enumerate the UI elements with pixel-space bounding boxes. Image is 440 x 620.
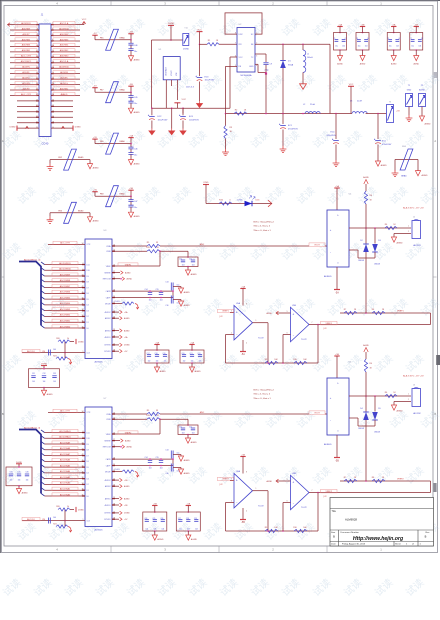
- svg-text:-5B: -5B: [335, 459, 339, 462]
- svg-text:2: 2: [408, 399, 409, 401]
- svg-text:D7: D7: [87, 455, 89, 457]
- amp U4: [334, 187, 339, 189]
- svg-text:1N4148: 1N4148: [374, 431, 380, 433]
- svg-text:AGND: AGND: [157, 538, 164, 541]
- VINA wire with resistor R5: [112, 413, 147, 415]
- svg-text:13: 13: [36, 56, 38, 58]
- ferrite bead FB6 group: [92, 138, 97, 140]
- clamp bottom rail: [365, 252, 367, 258]
- svg-text:AVDD1: AVDD1: [105, 336, 111, 339]
- wire SE to rail: [329, 44, 331, 113]
- svg-text:+5A: +5A: [155, 341, 159, 344]
- EC3 capacitor: [199, 44, 201, 76]
- svg-text:A: A: [434, 139, 436, 143]
- resistor R9: [265, 361, 278, 364]
- svg-text:ADCDWB5: ADCDWB5: [60, 296, 71, 299]
- svg-text:ADCDWA7: ADCDWA7: [60, 453, 71, 456]
- svg-text:1: 1: [83, 437, 84, 439]
- CC40 pin row 18: [17, 116, 39, 118]
- svg-text:AGND: AGND: [47, 393, 54, 396]
- VREF wire: [159, 251, 161, 266]
- svg-text:B(.A.X.S.F.L: -5V~+5V: B(.A.X.S.F.L: -5V~+5V: [403, 375, 424, 378]
- svg-text:18: 18: [52, 67, 54, 69]
- svg-text:7: 7: [235, 43, 236, 45]
- bus entry + wire ADCDWA5: [41, 465, 45, 468]
- svg-text:5Vin = 5, Vout = 5: 5Vin = 5, Vout = 5: [254, 393, 271, 396]
- feedback divider row R7 R8: [340, 480, 431, 482]
- svg-text:42: 42: [82, 286, 84, 288]
- svg-text:37: 37: [82, 483, 84, 485]
- svg-text:5Vin = -5, Vout = 1: 5Vin = -5, Vout = 1: [254, 229, 272, 232]
- ground: [149, 128, 155, 135]
- svg-text:CM: CM: [42, 351, 45, 353]
- svg-text:ADDRB10: ADDRB10: [59, 66, 69, 69]
- svg-text:104: 104: [182, 264, 185, 266]
- svg-text:ADCDWA4: ADCDWA4: [60, 470, 71, 473]
- svg-text:D11: D11: [87, 264, 90, 266]
- svg-text:C7: C7: [410, 38, 412, 40]
- svg-text:-5B: -5B: [129, 84, 133, 86]
- svg-text:VIN: VIN: [176, 72, 178, 76]
- svg-text:DGND: DGND: [78, 342, 84, 344]
- date row: [338, 541, 340, 546]
- svg-text:C1: C1: [333, 38, 335, 40]
- connector pin2 to AGND: [394, 233, 411, 235]
- svg-text:D9: D9: [87, 444, 89, 446]
- svg-text:C26: C26: [160, 518, 163, 520]
- svg-text:ADDRB1: ADDRB1: [22, 49, 31, 52]
- svg-text:SENSE: SENSE: [104, 272, 111, 274]
- AVDD1 stub: [112, 504, 119, 506]
- svg-text:AGND: AGND: [363, 344, 369, 347]
- svg-text:VREF2: VREF2: [326, 491, 333, 493]
- svg-text:BEAD: BEAD: [401, 174, 407, 177]
- svg-text:C20: C20: [182, 353, 185, 355]
- svg-text:C5: C5: [387, 38, 389, 40]
- svg-text:C2: C2: [345, 38, 347, 40]
- svg-text:D3: D3: [87, 310, 89, 312]
- svg-text:ADCCLK: ADCCLK: [27, 518, 35, 521]
- CC40 pin row 8: [10, 62, 39, 64]
- cap C16: [171, 464, 173, 472]
- svg-text:D8: D8: [87, 282, 89, 284]
- CC40 pin row 12: [10, 84, 39, 86]
- bus entry + wire ADCDWB8: [41, 279, 45, 282]
- svg-text:ADCDWA10: ADCDWA10: [59, 436, 71, 439]
- VINA wire with resistor R5: [112, 245, 147, 247]
- bus entry + wire ADCDWA3: [41, 476, 45, 479]
- svg-text:36: 36: [82, 489, 84, 491]
- SENSE stub: [112, 272, 120, 274]
- svg-text:5Vin = -5, Vout = 1: 5Vin = -5, Vout = 1: [254, 397, 272, 400]
- svg-text:C22: C22: [198, 353, 201, 355]
- bus entry + wire ADCDWA6: [41, 459, 45, 462]
- svg-text:20: 20: [52, 72, 54, 74]
- svg-text:C14: C14: [144, 289, 147, 291]
- ground: [152, 535, 157, 540]
- svg-text:DRVSS: DRVSS: [104, 513, 111, 515]
- svg-text:Friday, August 30, 2013: Friday, August 30, 2013: [342, 543, 366, 546]
- svg-text:VOUT: VOUT: [171, 70, 173, 76]
- negative supply: [242, 508, 244, 520]
- svg-text:D4: D4: [87, 305, 89, 307]
- svg-text:C8: C8: [421, 38, 423, 40]
- resistor R9: [265, 529, 278, 532]
- svg-text:104: 104: [53, 381, 56, 383]
- svg-text:D1: D1: [87, 490, 89, 492]
- svg-text:-5B: -5B: [415, 24, 419, 26]
- svg-text:3: 3: [231, 478, 232, 480]
- DRVDD stub: [112, 350, 119, 352]
- ground: [178, 301, 183, 306]
- svg-text:104: 104: [419, 46, 422, 48]
- svg-text:30: 30: [52, 100, 54, 102]
- CC40 pin row 7: [10, 56, 39, 58]
- ferrite bead FB2 ground tie: [50, 159, 90, 161]
- svg-text:ADDRB9: ADDRB9: [22, 27, 31, 30]
- svg-text:VREF1: VREF1: [222, 311, 229, 313]
- ground: [185, 438, 190, 443]
- output wire: [253, 490, 269, 492]
- svg-text:CM: CM: [42, 519, 45, 521]
- svg-text:AGND: AGND: [184, 291, 191, 294]
- DRVSS stub: [112, 512, 119, 514]
- svg-text:AVDD2: AVDD2: [105, 479, 111, 482]
- output wire: [253, 322, 269, 324]
- ground EC1: [280, 146, 287, 153]
- svg-text:ADCDWB10: ADCDWB10: [59, 268, 71, 271]
- svg-text:ADCDWB0: ADCDWB0: [60, 325, 71, 328]
- svg-text:VOUT: VOUT: [314, 244, 320, 246]
- ground EC3: [197, 101, 203, 108]
- connector pin2 to AGND: [394, 401, 411, 403]
- ferrite bead FB3 ground tie: [50, 212, 90, 214]
- svg-text:C47: C47: [134, 201, 137, 203]
- svg-text:31: 31: [36, 105, 38, 107]
- svg-text:2: 2: [408, 231, 409, 233]
- svg-text:TL072: TL072: [301, 507, 308, 509]
- svg-text:1: 1: [408, 226, 409, 228]
- AVDD2 stub: [112, 311, 119, 313]
- svg-text:AGND: AGND: [195, 370, 202, 373]
- ground EC5: [375, 161, 380, 166]
- svg-text:43: 43: [82, 280, 84, 282]
- U2 top loop wire: [225, 13, 262, 34]
- svg-text:U8A: U8A: [236, 470, 241, 473]
- svg-text:ADCDWA8: ADCDWA8: [60, 447, 71, 450]
- svg-text:VCC: VCC: [82, 19, 87, 21]
- EC6 capacitor: [182, 108, 184, 115]
- svg-text:ADC_OTR: ADC_OTR: [21, 93, 31, 96]
- svg-text:B(.A.X.S.F.L: -5V~+5V: B(.A.X.S.F.L: -5V~+5V: [403, 207, 424, 210]
- svg-text:+5A: +5A: [241, 285, 245, 288]
- ground: [178, 469, 183, 474]
- svg-text:40: 40: [82, 466, 84, 468]
- svg-text:C46: C46: [134, 45, 137, 47]
- svg-text:5: 5: [287, 311, 288, 313]
- svg-text:+5V: +5V: [93, 137, 97, 139]
- svg-text:-: -: [330, 250, 331, 254]
- svg-text:1: 1: [37, 23, 38, 25]
- svg-text:DRVSS: DRVSS: [104, 345, 111, 347]
- op-amp U5A: [240, 288, 245, 290]
- ground R3: [222, 149, 229, 156]
- svg-text:+5B: +5B: [129, 188, 133, 190]
- resistor R21 down: [64, 521, 66, 527]
- svg-text:ADCDWA11: ADCDWA11: [59, 430, 71, 433]
- CC40 row20 DGND left: [17, 127, 39, 129]
- feedback rail: [226, 530, 319, 532]
- wire node: [170, 39, 172, 41]
- svg-text:REFCOM: REFCOM: [103, 279, 111, 281]
- output wire long: [309, 324, 431, 326]
- resistor R16: [219, 202, 232, 205]
- svg-text:+: +: [236, 478, 238, 482]
- svg-text:Sheet: Sheet: [395, 543, 401, 546]
- bus entry + wire ADCDWB10: [41, 268, 45, 271]
- svg-text:R9: R9: [265, 359, 267, 361]
- svg-text:AGND: AGND: [93, 166, 100, 169]
- svg-text:DRVDD: DRVDD: [104, 519, 111, 521]
- capacitors C46: [130, 40, 132, 44]
- svg-text:102: 102: [148, 360, 151, 362]
- svg-text:AGND: AGND: [184, 304, 191, 307]
- ground: [178, 456, 183, 461]
- svg-text:ADDRN0: ADDRN0: [60, 55, 69, 58]
- svg-text:3: 3: [37, 29, 38, 31]
- svg-text:AVSS1: AVSS1: [105, 497, 111, 500]
- svg-text:C21: C21: [190, 353, 193, 355]
- svg-text:ADCDWA0: ADCDWA0: [60, 493, 71, 496]
- fuse T11: [183, 34, 189, 46]
- svg-text:C13: C13: [165, 449, 168, 451]
- svg-text:-5A: -5A: [129, 31, 133, 34]
- svg-text:ADDRB3: ADDRB3: [22, 44, 31, 47]
- decoupling cap trio 1: [154, 344, 159, 346]
- svg-text:ADDRM: ADDRM: [60, 71, 68, 74]
- svg-text:44: 44: [82, 443, 84, 445]
- svg-text:25: 25: [36, 89, 38, 91]
- svg-text:AGND: AGND: [127, 278, 133, 281]
- CC40 pin row 16: [17, 105, 39, 107]
- svg-text:5Vin = 5, Vout = 5: 5Vin = 5, Vout = 5: [254, 225, 271, 228]
- inductor L1: [302, 44, 304, 50]
- svg-text:104: 104: [53, 349, 56, 351]
- svg-text:21: 21: [36, 78, 38, 80]
- svg-text:AGND: AGND: [160, 370, 167, 373]
- svg-text:10u: 10u: [177, 452, 180, 454]
- svg-text:AD8065: AD8065: [324, 275, 332, 278]
- decoupling caps C1/C2: [337, 26, 342, 28]
- svg-text:R4: R4: [370, 363, 372, 365]
- svg-text:ADCDWA2: ADCDWA2: [60, 482, 71, 485]
- SENSE stub: [112, 440, 120, 442]
- input - wire: [226, 502, 235, 504]
- bus entry + wire ADCDWB11: [41, 262, 45, 265]
- resistor R3 vertical: [225, 114, 227, 126]
- EC4 capacitor: [335, 114, 337, 140]
- svg-text:R5: R5: [147, 242, 149, 244]
- svg-text:29: 29: [36, 100, 38, 102]
- svg-text:AD9226: AD9226: [95, 361, 104, 364]
- caps C11 C12 loop: [187, 251, 189, 257]
- bus entry + wire ADCDWB4: [41, 302, 45, 305]
- svg-text:33: 33: [156, 410, 158, 412]
- svg-text:4: 4: [246, 511, 247, 513]
- svg-text:C34: C34: [10, 471, 13, 473]
- svg-text:ADDRN8: ADDRN8: [60, 33, 69, 36]
- svg-text:ADDRF: ADDRF: [22, 71, 30, 74]
- svg-text:8: 8: [246, 471, 247, 473]
- svg-text:ADDRB11: ADDRB11: [21, 22, 31, 25]
- svg-text:D8: D8: [87, 450, 89, 452]
- svg-text:6: 6: [52, 34, 53, 36]
- CC40 pin row 13: [10, 89, 39, 91]
- svg-text:ADCDWB8: ADCDWB8: [60, 279, 71, 282]
- svg-text:VREF1: VREF1: [397, 311, 405, 313]
- svg-text:27: 27: [36, 94, 38, 96]
- svg-text:AGND: AGND: [124, 497, 130, 500]
- ground: [128, 212, 133, 217]
- svg-text:AGND: AGND: [93, 220, 100, 223]
- svg-text:AGND: AGND: [419, 89, 425, 92]
- svg-text:22uH: 22uH: [357, 100, 362, 102]
- svg-text:R19: R19: [146, 415, 149, 417]
- svg-text:12: 12: [52, 50, 54, 52]
- svg-text:TL072: TL072: [301, 339, 308, 341]
- ground: [391, 237, 396, 242]
- svg-text:AGND: AGND: [391, 62, 397, 65]
- VOUT label: [309, 243, 325, 247]
- size/doc/rev row: [338, 530, 340, 541]
- svg-text:+5B: +5B: [153, 503, 157, 505]
- svg-text:41: 41: [82, 292, 84, 294]
- svg-text:D5: D5: [87, 467, 89, 469]
- svg-text:ADCDWB2: ADCDWB2: [60, 314, 71, 317]
- svg-text:104: 104: [195, 528, 198, 530]
- svg-text:D3: D3: [87, 478, 89, 480]
- VOUT label: [309, 411, 325, 415]
- output wire to connector: [349, 227, 411, 229]
- svg-text:AGND: AGND: [267, 312, 273, 315]
- svg-text:26: 26: [52, 89, 54, 91]
- diode D3: [374, 228, 376, 244]
- connector J2: [412, 221, 421, 239]
- svg-text:AGND: AGND: [360, 62, 366, 65]
- svg-text:AGND: AGND: [267, 480, 273, 483]
- svg-text:U5A: U5A: [236, 302, 241, 305]
- svg-text:-: -: [330, 418, 331, 422]
- svg-text:ADC_OTR: ADC_OTR: [21, 55, 31, 58]
- svg-text:104: 104: [43, 381, 46, 383]
- svg-text:AGND: AGND: [425, 123, 432, 126]
- bus entry + wire ADCDWB5: [41, 297, 45, 300]
- svg-text:ADCDWB11: ADCDWB11: [59, 262, 71, 265]
- svg-text:U5B: U5B: [292, 305, 297, 307]
- svg-text:+: +: [292, 480, 294, 484]
- svg-text:ADC_OTR: ADC_OTR: [60, 242, 70, 245]
- zone ticks and numbers: [110, 1, 112, 6]
- feedback rail: [226, 362, 319, 364]
- bus entry + wire ADCDWA1: [41, 488, 45, 491]
- svg-text:BEAD: BEAD: [120, 140, 126, 143]
- capacitors C45: [130, 92, 132, 96]
- decoupling cap trio 2: [189, 344, 194, 346]
- svg-text:10u: 10u: [134, 155, 137, 157]
- svg-text:15: 15: [36, 61, 38, 63]
- CC40 pin row 17: [17, 111, 39, 113]
- svg-text:B: B: [425, 535, 427, 539]
- svg-text:ADCDWA6: ADCDWA6: [60, 459, 71, 462]
- bus entry + wire ADCDWB1: [41, 320, 45, 323]
- U2 pin2 SE wire: [255, 43, 330, 45]
- svg-text:AVADD: AVADD: [61, 93, 68, 96]
- svg-text:4: 4: [246, 343, 247, 345]
- viewer window edges: [0, 0, 1, 553]
- decoupling cap trio 1: [152, 505, 157, 507]
- svg-text:104: 104: [164, 360, 167, 362]
- svg-text:35: 35: [36, 116, 38, 118]
- svg-text:D10: D10: [87, 270, 90, 272]
- svg-text:AD9226: AD9226: [95, 529, 104, 532]
- svg-text:36: 36: [52, 116, 54, 118]
- svg-text:6: 6: [287, 333, 288, 335]
- svg-text:104: 104: [160, 468, 163, 470]
- svg-text:C29: C29: [194, 518, 197, 520]
- svg-text:2: 2: [231, 333, 232, 335]
- feedback divider row R7 R8: [340, 312, 431, 314]
- svg-text:ADCDWB1: ADCDWB1: [60, 320, 71, 323]
- svg-text:V+: V+: [337, 215, 339, 217]
- svg-text:ADCDWB4: ADCDWB4: [60, 302, 71, 305]
- svg-text:100uF/16V: 100uF/16V: [158, 119, 168, 121]
- svg-text:39: 39: [82, 471, 84, 473]
- svg-text:104: 104: [192, 432, 195, 434]
- svg-text:ADCCLA: ADCCLA: [60, 22, 69, 25]
- resistor R1: [207, 43, 219, 46]
- U1 pins down: [165, 80, 167, 108]
- caps C11 C12 loop: [187, 419, 189, 425]
- svg-text:4: 4: [52, 29, 53, 31]
- svg-text:34: 34: [82, 411, 84, 413]
- svg-text:C14: C14: [144, 457, 147, 459]
- svg-text:+5V: +5V: [396, 110, 400, 112]
- svg-text:6: 6: [287, 501, 288, 503]
- capacitors C46: [130, 144, 132, 148]
- svg-text:R4: R4: [370, 195, 372, 197]
- ground: [169, 128, 175, 135]
- svg-text:Http://www.hejin.org: Http://www.hejin.org: [353, 536, 404, 542]
- svg-text:BEAD: BEAD: [78, 209, 84, 212]
- svg-text:ADDRN2: ADDRN2: [60, 49, 69, 52]
- svg-text:DGND: DGND: [124, 345, 130, 347]
- svg-text:ADCIN1: ADCIN1: [413, 244, 421, 247]
- input - wire: [226, 334, 235, 336]
- negative supply: [336, 435, 338, 458]
- ground EC4: [333, 160, 340, 167]
- svg-text:104: 104: [160, 300, 163, 302]
- svg-text:GND: GND: [407, 90, 412, 92]
- svg-text:CAPB: CAPB: [106, 458, 112, 461]
- svg-text:AGND: AGND: [422, 174, 429, 177]
- ground T1: [406, 115, 413, 122]
- bus entry + wire ADCDWB3: [41, 308, 45, 311]
- svg-text:C15: C15: [155, 457, 158, 459]
- svg-text:ADDRD: ADDRD: [22, 76, 30, 79]
- svg-text:19: 19: [36, 72, 38, 74]
- svg-text:AGND: AGND: [414, 62, 420, 65]
- resistor R20 pullup: [64, 510, 66, 521]
